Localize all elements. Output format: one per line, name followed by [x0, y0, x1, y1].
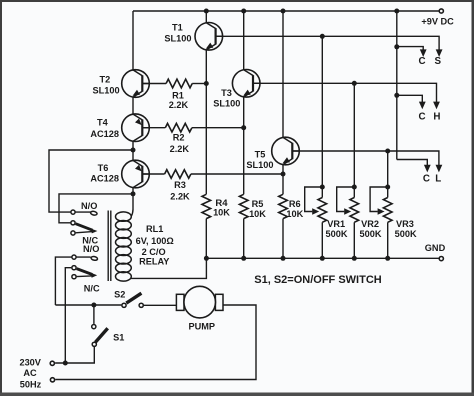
svg-text:C: C: [418, 112, 425, 123]
VR2 wiper loop: [337, 187, 355, 212]
wire rail to T2 collector: [132, 11, 134, 70]
svg-text:R5: R5: [252, 199, 264, 209]
junction VR3 top: [385, 185, 390, 190]
svg-text:AC: AC: [23, 368, 37, 378]
switch S1: [92, 325, 96, 329]
terminal GND: [439, 257, 443, 261]
junction relay common 2 on 230V line: [63, 361, 68, 366]
junction GND rail at VR2: [352, 256, 357, 261]
svg-text:R3: R3: [174, 180, 186, 190]
svg-text:T6: T6: [98, 163, 109, 173]
junction S1 branch: [91, 303, 96, 308]
wire relay coil return to GND rail: [131, 258, 206, 278]
svg-text:50Hz: 50Hz: [20, 379, 42, 389]
wire S1 to 230V live: [55, 347, 94, 363]
wire T1 base to S probe: [216, 36, 440, 51]
svg-text:H: H: [433, 112, 440, 123]
wire relay common 2 to 230V line: [65, 268, 71, 363]
wire T5 base to L probe: [292, 151, 439, 166]
VR1 wiper arrow: [312, 208, 319, 214]
relay contact N/O 2 pad: [91, 256, 98, 261]
wire rail to T5 collector: [282, 11, 284, 138]
svg-text:10K: 10K: [286, 209, 303, 219]
wire node T4-T6 to relay contact N/O 1: [49, 150, 133, 212]
junction GND rail at VR3: [385, 256, 390, 261]
relay contact N/C 2 wire: [77, 275, 95, 278]
svg-text:10K: 10K: [213, 208, 230, 218]
relay common arm 1 circle: [71, 221, 75, 225]
svg-text:SL100: SL100: [93, 86, 120, 96]
svg-text:PUMP: PUMP: [189, 322, 216, 332]
junction VR2 feed on T3 base line: [352, 81, 357, 86]
junction VR1 top: [320, 185, 325, 190]
svg-text:2.2K: 2.2K: [169, 100, 189, 110]
wire relay N/O 2 to S2 line: [55, 257, 90, 305]
relay contact N/C 1 circle: [71, 231, 75, 235]
svg-text:AC128: AC128: [90, 129, 119, 139]
potentiometer VR1 body: [321, 187, 323, 198]
potentiometer VR2 body: [353, 187, 355, 198]
wire T3 base to H probe: [253, 83, 437, 103]
svg-text:500K: 500K: [395, 229, 417, 239]
relay RL1 core: [107, 211, 109, 282]
wire C branch 1: [397, 47, 423, 51]
svg-text:S: S: [435, 56, 442, 67]
relay contact N/O 1 pad: [90, 211, 97, 216]
svg-text:S1, S2=ON/OFF SWITCH: S1, S2=ON/OFF SWITCH: [254, 274, 381, 286]
svg-text:AC128: AC128: [90, 173, 119, 183]
wire rail to T3 collector: [243, 11, 245, 70]
svg-text:RL1: RL1: [146, 224, 163, 234]
svg-text:C: C: [418, 56, 425, 67]
wire T5 emitter / R6 column: [282, 165, 284, 195]
wire T3 emitter / R5 column: [243, 97, 245, 195]
junction C branch 1: [394, 44, 399, 49]
svg-text:2.2K: 2.2K: [170, 144, 190, 154]
wire VR3 feed: [387, 151, 389, 187]
svg-text:VR3: VR3: [396, 219, 414, 229]
transistor T1: [195, 23, 223, 51]
svg-text:VR2: VR2: [361, 219, 379, 229]
arrow C probe 2: [419, 102, 426, 110]
arrow L probe: [436, 165, 443, 173]
svg-text:10K: 10K: [249, 209, 266, 219]
wire S2 to pump: [144, 304, 177, 306]
svg-text:T2: T2: [100, 75, 111, 85]
wire T2 emitter to T4 emitter: [132, 97, 134, 114]
resistor R5: [239, 194, 248, 218]
svg-text:N/C: N/C: [84, 283, 100, 293]
relay RL1 coil: [131, 210, 133, 217]
junction GND rail at R6: [281, 256, 286, 261]
wire node T6-coil to relay common 1: [59, 194, 133, 223]
wire pump return loop: [55, 305, 256, 380]
svg-text:6V, 100Ω: 6V, 100Ω: [136, 236, 174, 246]
svg-text:R2: R2: [173, 133, 185, 143]
potentiometer VR3 body: [387, 187, 389, 198]
relay common arm 2 circle: [72, 266, 76, 270]
terminal 230V live: [50, 361, 54, 365]
wire T1 emitter / R4 column: [205, 50, 207, 194]
svg-text:500K: 500K: [326, 229, 348, 239]
VR3 wiper loop: [370, 187, 388, 212]
resistor R3: [143, 173, 165, 175]
junction GND rail at R4/coil: [204, 256, 209, 261]
wire GND rail: [206, 257, 438, 259]
svg-text:N/O: N/O: [81, 201, 97, 211]
svg-text:T1: T1: [172, 23, 183, 33]
wire C branch 3: [397, 160, 428, 167]
junction node T4-T6: [131, 148, 136, 153]
svg-text:VR1: VR1: [327, 219, 345, 229]
relay contact N/O 2 circle: [72, 255, 76, 259]
arrow C probe 1: [420, 49, 427, 57]
arrow S probe: [436, 49, 443, 57]
svg-text:SL100: SL100: [164, 34, 191, 44]
relay common arm 2: [77, 269, 93, 275]
junction T5 collector on rail: [281, 9, 286, 14]
svg-text:T3: T3: [221, 88, 232, 98]
VR3 wiper arrow: [378, 208, 385, 214]
svg-text:N/O: N/O: [83, 244, 99, 254]
junction GND rail at VR1: [320, 256, 325, 261]
junction R2 node on T3 emitter: [241, 125, 246, 130]
svg-text:R1: R1: [172, 91, 184, 101]
svg-text:T5: T5: [255, 149, 266, 159]
svg-text:L: L: [435, 173, 441, 184]
wire C branch 2: [397, 95, 423, 103]
wire S1 branch down: [93, 305, 95, 324]
junction +9V feed on rail: [394, 9, 399, 14]
VR1 wiper loop: [305, 187, 323, 212]
svg-text:+9V DC: +9V DC: [421, 16, 454, 26]
svg-text:RELAY: RELAY: [139, 256, 169, 266]
terminal 230V neutral: [50, 378, 54, 382]
svg-text:SL100: SL100: [213, 99, 240, 109]
wire VR1 feed: [321, 36, 323, 187]
junction R3 node on T5 emitter: [281, 172, 286, 177]
switch S2: [122, 303, 126, 307]
svg-text:S1: S1: [113, 332, 124, 342]
wire S2 line: [55, 304, 121, 306]
svg-text:C: C: [423, 173, 430, 184]
resistor R1: [143, 83, 166, 85]
resistor R2: [143, 127, 165, 129]
resistor R6: [279, 194, 288, 218]
VR2 wiper arrow: [344, 208, 351, 214]
transistor T4: [122, 114, 150, 142]
svg-text:S2: S2: [114, 289, 125, 299]
svg-text:R6: R6: [289, 199, 301, 209]
transistor T2: [122, 70, 150, 98]
arrow H probe: [433, 102, 440, 110]
junction T3 collector on rail: [241, 9, 246, 14]
svg-text:2.2K: 2.2K: [170, 191, 190, 201]
relay common arm 1: [76, 224, 93, 231]
svg-text:230V: 230V: [19, 358, 41, 368]
wire +9V feed column: [396, 11, 398, 160]
junction R1 node on T1 emitter: [204, 81, 209, 86]
junction VR3 feed on T5 base line: [385, 149, 390, 154]
wire rail to T1 collector: [205, 11, 207, 23]
wire T6 collector down: [132, 188, 134, 210]
relay contact N/C 2 circle: [72, 275, 76, 279]
junction GND rail at R5: [241, 256, 246, 261]
wire T4 collector to T6 emitter: [132, 141, 134, 160]
transistor T6: [122, 160, 150, 188]
wire VR2 feed: [353, 83, 355, 187]
terminal +9V DC: [439, 9, 443, 13]
relay contact N/C 1 wire: [76, 231, 95, 232]
junction node T6-coil: [131, 191, 136, 196]
resistor R4: [202, 194, 211, 218]
junction VR1 feed on T1 base line: [320, 34, 325, 39]
junction C branch 2: [394, 93, 399, 98]
transistor T5: [272, 137, 300, 165]
svg-text:GND: GND: [425, 243, 446, 253]
transistor T3: [232, 70, 260, 98]
svg-text:SL100: SL100: [246, 160, 273, 170]
arrow C probe 3: [424, 165, 431, 173]
wire +9V DC rail: [133, 10, 439, 12]
svg-text:500K: 500K: [360, 229, 382, 239]
junction T1 collector on rail: [204, 9, 209, 14]
relay contact N/O 1 circle: [71, 210, 75, 214]
pump motor M: [176, 286, 223, 318]
svg-text:T4: T4: [97, 118, 109, 128]
junction VR2 top: [352, 185, 357, 190]
